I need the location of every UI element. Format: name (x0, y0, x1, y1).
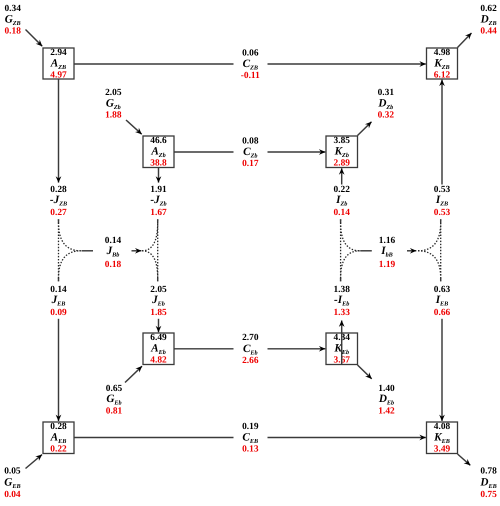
arrow G_EB into A_EB (26, 455, 43, 469)
label C_EB (242, 422, 259, 455)
label C_ZB (241, 48, 260, 81)
label -I_Eb (333, 285, 350, 318)
box A_Eb (143, 333, 174, 366)
svg-text:0.22: 0.22 (50, 444, 67, 454)
svg-text:1.67: 1.67 (150, 208, 167, 218)
svg-text:0.32: 0.32 (378, 111, 395, 121)
svg-text:0.09: 0.09 (50, 308, 67, 318)
label I_ZB (434, 185, 451, 218)
svg-text:1.42: 1.42 (378, 406, 395, 416)
wire A_Zb to K_Zb (174, 151, 325, 153)
svg-text:0.18: 0.18 (105, 260, 122, 270)
arrow K_Zb to D_Zb (358, 122, 372, 136)
svg-text:2.94: 2.94 (50, 48, 67, 58)
svg-text:0.17: 0.17 (242, 159, 259, 169)
svg-text:0.04: 0.04 (4, 490, 21, 500)
label -J_Zb (150, 185, 167, 218)
wire A_EB to K_EB (74, 437, 426, 439)
label I_bB (379, 236, 396, 270)
svg-text:0.28: 0.28 (50, 422, 67, 432)
arrow J_EB down into A_EB (58, 319, 60, 421)
box K_Zb (326, 136, 358, 169)
svg-text:6.12: 6.12 (434, 70, 451, 80)
label J_Bb (105, 236, 122, 270)
svg-text:2.89: 2.89 (334, 158, 351, 168)
box A_EB (43, 422, 74, 455)
wire A_ZB to K_ZB (74, 63, 426, 65)
box A_Zb (143, 136, 174, 169)
label I_EB (434, 285, 451, 318)
label D_ZB (480, 4, 498, 37)
svg-text:4.82: 4.82 (150, 355, 167, 365)
arrow I_Zb up into K_Zb (341, 168, 343, 184)
svg-text:0.08: 0.08 (242, 136, 259, 146)
svg-text:38.8: 38.8 (150, 158, 167, 168)
svg-text:1.19: 1.19 (379, 260, 396, 270)
svg-text:0.81: 0.81 (106, 406, 123, 416)
label G_Eb (106, 384, 123, 417)
svg-text:4.98: 4.98 (434, 48, 451, 58)
svg-text:1.33: 1.33 (333, 308, 350, 318)
svg-text:0.78: 0.78 (480, 466, 497, 476)
box A_ZB (43, 48, 74, 81)
label I_Zb (333, 185, 350, 218)
svg-text:0.14: 0.14 (333, 208, 350, 218)
svg-text:6.49: 6.49 (150, 333, 167, 343)
svg-text:2.70: 2.70 (242, 333, 259, 343)
arrow A_Zb down to -J_Zb (158, 168, 160, 183)
box K_ZB (427, 48, 458, 81)
svg-text:0.44: 0.44 (480, 27, 497, 37)
label J_EB (50, 285, 67, 318)
svg-text:0.19: 0.19 (242, 422, 259, 432)
label C_Eb (242, 333, 259, 366)
svg-text:0.53: 0.53 (434, 208, 451, 218)
label G_EB (4, 466, 21, 500)
dotted merge tree from I_Zb and -I_Eb (341, 219, 372, 281)
svg-text:3.85: 3.85 (334, 136, 351, 146)
label D_Eb (378, 384, 395, 417)
label D_Zb (377, 88, 394, 121)
svg-text:46.6: 46.6 (150, 136, 167, 146)
dotted merge tree from -J_ZB and J_EB (59, 219, 94, 281)
label J_Eb (150, 285, 167, 318)
arrow K_Eb up to -I_Eb (341, 321, 343, 365)
svg-text:1.85: 1.85 (150, 308, 167, 318)
svg-text:4.97: 4.97 (50, 70, 67, 80)
box K_EB (427, 422, 458, 455)
arrow I_ZB up into K_ZB (441, 80, 443, 185)
arrow and dotted split tree to I_ZB and I_EB (407, 219, 441, 281)
arrow K_ZB to D_ZB (458, 33, 472, 48)
svg-text:2.66: 2.66 (242, 356, 259, 366)
arrow G_Eb into A_Eb (125, 366, 142, 382)
wire A_Eb to K_Eb (174, 348, 325, 350)
arrow G_Zb into A_Zb (126, 120, 142, 134)
arrow I_EB down into K_EB (441, 319, 443, 421)
svg-text:0.27: 0.27 (50, 208, 67, 218)
svg-text:0.75: 0.75 (480, 490, 497, 500)
arrow and dotted split tree to -J_Zb and J_Eb (132, 219, 158, 281)
arrow G_ZB into A_ZB (26, 30, 43, 47)
arrow A_ZB down to -J_ZB (58, 79, 60, 183)
svg-text:4.08: 4.08 (434, 422, 451, 432)
svg-text:0.06: 0.06 (242, 48, 259, 58)
svg-text:0.05: 0.05 (4, 466, 21, 476)
label G_ZB (4, 4, 21, 37)
arrow K_EB to D_EB (458, 454, 471, 465)
box K_Eb (326, 333, 358, 366)
svg-text:1.88: 1.88 (105, 111, 122, 121)
label C_Zb (242, 136, 259, 169)
svg-text:0.13: 0.13 (242, 445, 259, 455)
svg-text:0.66: 0.66 (434, 308, 451, 318)
label D_EB (479, 466, 497, 500)
svg-text:-0.11: -0.11 (241, 71, 260, 81)
arrow J_Eb down into A_Eb (158, 319, 160, 332)
svg-text:3.49: 3.49 (434, 444, 451, 454)
svg-text:0.18: 0.18 (4, 27, 21, 37)
label G_Zb (105, 88, 122, 121)
arrow K_Eb to D_Eb (358, 365, 372, 379)
label -J_ZB (50, 185, 67, 218)
